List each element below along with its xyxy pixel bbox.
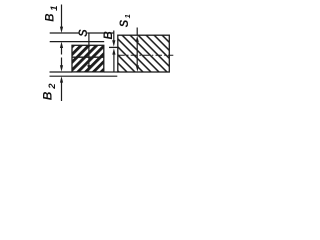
svg-text:B: B — [41, 91, 55, 100]
ledge bar line — [109, 46, 118, 48]
svg-text:1: 1 — [123, 14, 132, 18]
board section (right rectangle) — [118, 35, 170, 72]
label S1 — [119, 14, 132, 27]
B dimension line with down arrow — [113, 31, 115, 42]
dimension line B1 with down arrow — [61, 5, 63, 29]
label B2 — [41, 83, 59, 100]
extension line H1 — [50, 32, 114, 34]
svg-text:B: B — [45, 13, 57, 21]
svg-text:2: 2 — [47, 83, 58, 90]
S1 dimension line with outward arrows — [136, 28, 138, 36]
down arrow onto H3 — [61, 58, 63, 67]
svg-text:S: S — [119, 19, 131, 27]
up arrow below ledge bar — [112, 48, 115, 54]
V1 dimension line through batten with down arrow — [88, 42, 90, 66]
S dimension up arrow below H2 — [60, 42, 63, 48]
extension line H2 — [50, 41, 104, 43]
label B1 — [45, 6, 61, 22]
extension line H3 — [50, 71, 73, 73]
vertical connector V1 — [88, 33, 90, 42]
batten section (left square, two stacked members) — [72, 45, 104, 72]
extension line H4 — [50, 75, 118, 77]
B2 dimension up arrow below H4 — [60, 76, 63, 82]
svg-text:1: 1 — [49, 6, 60, 11]
svg-text:S: S — [78, 29, 90, 37]
centerline dash-dot — [118, 54, 173, 56]
